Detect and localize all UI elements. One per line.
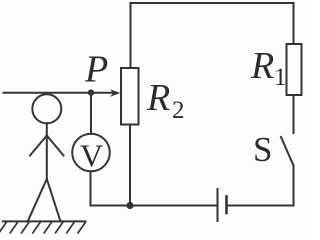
node P junction dot [88, 89, 94, 95]
person: right leg [47, 179, 61, 221]
person: body [46, 123, 48, 179]
svg-text:R: R [250, 45, 274, 87]
junction dot at R2 bottom / bottom wire [126, 202, 133, 209]
ground hatching [0, 222, 86, 234]
battery: short plate (negative) [225, 197, 228, 214]
svg-text:S: S [253, 130, 272, 169]
wire: bottom horizontal right of battery [227, 205, 294, 207]
person: left arm [30, 136, 47, 156]
wire: R1 bottom to switch top contact [293, 95, 295, 133]
person: head [32, 94, 61, 123]
wire: top-right corner down to R1 [293, 3, 295, 44]
svg-text:V: V [80, 138, 103, 174]
wire: voltmeter bottom lead down to bottom wire corner [90, 172, 92, 206]
svg-text:1: 1 [274, 64, 287, 91]
svg-text:2: 2 [172, 97, 185, 124]
battery: long plate (positive) [217, 189, 219, 221]
ground line [3, 220, 86, 222]
svg-text:P: P [84, 49, 108, 91]
svg-text:R: R [146, 77, 170, 119]
wire: top horizontal [131, 2, 294, 4]
person: right arm [47, 136, 64, 156]
wire: node P down to voltmeter top [90, 93, 92, 134]
arrowhead of slider pointing into R2 [110, 89, 120, 97]
wire: slider horizontal from person head to rheostat [4, 92, 113, 94]
rheostat R2 body [121, 68, 139, 125]
wire: R2 top stub up to top-left corner [130, 3, 132, 68]
wire: switch hinge down to bottom-right corner [293, 166, 295, 206]
voltmeter V: case circle [72, 134, 110, 172]
resistor R1 [287, 44, 302, 95]
wire: R2 bottom lead down to junction [129, 125, 131, 206]
person: left leg [28, 179, 47, 221]
switch S lever (open) [281, 137, 294, 166]
wire: bottom horizontal left of battery [91, 205, 218, 207]
